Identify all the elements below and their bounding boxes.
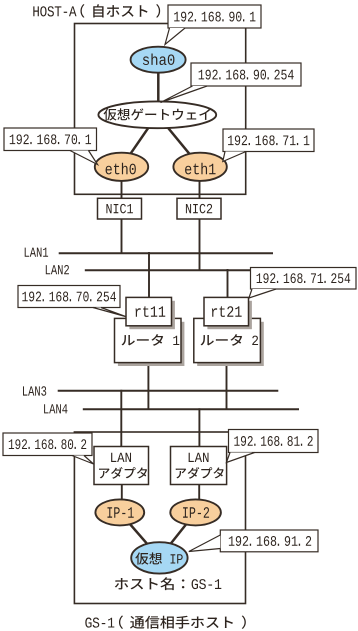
wire LAN adapter 2 to IP-2 [198, 483, 200, 502]
bus LAN2 [85, 269, 255, 271]
wire LAN adapter 1 to IP-1 [121, 483, 123, 502]
bus LAN4 [83, 408, 299, 410]
label router 1 [122, 334, 180, 346]
wire router1 to LAN4 [147, 361, 149, 410]
callout 192.168.90.1 [168, 5, 261, 28]
wire LAN1 to rt11 [148, 252, 150, 300]
label LAN3 [23, 386, 46, 395]
text 192.168.90.1 [174, 12, 255, 22]
node IP-2 [170, 499, 221, 525]
box rt21 [204, 297, 249, 325]
callout 192.168.90.254 [191, 63, 301, 86]
wire eth0 to LAN1 via NIC1 [121, 169, 123, 254]
label router 2 [201, 334, 258, 346]
wire LAN3 to LAN adapter 1 [120, 390, 122, 449]
label IP-2 [183, 507, 209, 518]
text 192.168.70.254 [22, 292, 116, 302]
text 192.168.71.254 [257, 273, 351, 283]
label sha0 [143, 53, 175, 65]
box NIC2 [177, 198, 221, 219]
box GS-1 (partner host) [74, 432, 245, 604]
box LAN adapter 1 [94, 447, 149, 485]
label rt21 [212, 306, 242, 317]
text 192.168.80.2 [9, 439, 86, 449]
callout 192.168.91.2 [220, 530, 318, 552]
wire eth1 to LAN2 via NIC2 [199, 169, 201, 271]
box HOST-A (self host) [75, 24, 246, 195]
label IP-1 [107, 507, 133, 517]
box rt11 [126, 297, 172, 325]
label adapter2 (アダプタ) [176, 467, 224, 479]
callout 192.168.81.2 [229, 430, 319, 453]
wire gateway to eth0 [122, 115, 158, 167]
bus LAN3 [58, 390, 279, 392]
node virtual gateway (仮想ゲートウェイ) [98, 101, 216, 128]
label GS-1 (communication partner host) [85, 616, 246, 629]
wire sha0 to virtual gateway [157, 60, 160, 103]
text 192.168.90.254 [199, 70, 294, 80]
box router 2 (ルータ2) shadow [197, 322, 264, 366]
node sha0 (virtual NIC) [131, 47, 186, 73]
callout 192.168.70.1 [4, 128, 97, 151]
wire LAN2 to rt21 [227, 269, 229, 300]
node eth1 [173, 153, 226, 181]
box LAN adapter 2 [171, 447, 227, 485]
label virtual gateway [104, 108, 211, 120]
node eth0 [95, 153, 148, 181]
box router 2 (ルータ2) [194, 318, 261, 362]
box router 1 (ルータ1) shadow [118, 322, 184, 366]
callout 192.168.71.1 [223, 129, 314, 152]
label LAN1 [25, 248, 48, 257]
wire IP-1 to virtual IP [120, 512, 160, 558]
box NIC1 [98, 198, 142, 219]
text 192.168.71.1 [228, 135, 309, 145]
label NIC1 [106, 204, 133, 213]
label LAN (adapter2) [189, 453, 209, 462]
label rt11 [135, 306, 165, 317]
box rt21 shadow [207, 301, 252, 329]
text 192.168.70.1 [10, 134, 91, 144]
label NIC2 [186, 204, 212, 213]
wire IP-2 to virtual IP [159, 512, 195, 558]
text 192.168.81.2 [234, 436, 312, 446]
label virtual IP [135, 552, 182, 564]
bus LAN1 [59, 252, 273, 254]
label LAN4 [44, 404, 67, 413]
label host name GS-1 [115, 577, 222, 590]
text 192.168.91.2 [229, 536, 311, 546]
wire router2 to LAN4 [226, 361, 228, 410]
node virtual IP (仮想IP) [131, 542, 187, 573]
label eth1 [185, 163, 215, 175]
label HOST-A (self host) title [33, 4, 160, 18]
box rt11 shadow [129, 301, 175, 329]
wire LAN4 to LAN adapter 2 [198, 408, 200, 449]
callout 192.168.71.254 [251, 268, 357, 290]
node IP-1 [95, 499, 144, 525]
label LAN (adapter1) [111, 453, 131, 462]
label LAN2 [46, 265, 69, 274]
box router 1 (ルータ1) [115, 318, 182, 362]
label adapter1 (アダプタ) [99, 467, 147, 479]
label eth0 [106, 163, 136, 175]
callout 192.168.70.254 [18, 286, 120, 308]
wire gateway to eth1 [157, 115, 200, 167]
callout 192.168.80.2 [3, 433, 92, 456]
